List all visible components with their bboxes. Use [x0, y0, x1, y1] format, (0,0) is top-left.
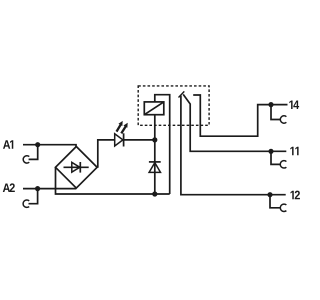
node A1 junction	[35, 142, 40, 147]
wire 12 clamp drop	[270, 195, 280, 208]
node LED-coil junction	[152, 137, 157, 142]
node A2 junction	[35, 186, 40, 191]
wire A1 to bridge top vertex	[23, 145, 76, 147]
clamp terminal 14	[280, 116, 286, 123]
relay coil K1 diagonal	[144, 102, 164, 115]
clamp terminal 12	[280, 204, 286, 211]
bridge rectifier B1 inner diode	[64, 162, 89, 173]
wire A1 clamp drop	[29, 145, 38, 160]
LED light arrow right	[121, 123, 127, 134]
wire coil bottom pin	[154, 115, 156, 140]
terminal 14 label	[289, 101, 292, 110]
relay coil K1 box	[144, 102, 164, 115]
wire A2 to bridge bottom vertex	[23, 188, 76, 190]
contact movable arm to terminal 11	[183, 94, 286, 151]
LED V1	[115, 133, 155, 146]
relay K1 dashed enclosure	[138, 86, 209, 125]
wire 11 clamp drop	[271, 151, 280, 164]
contact NC fixed line to terminal 12	[181, 96, 286, 195]
terminal 11 label	[290, 147, 293, 156]
LED light arrow left	[117, 121, 123, 132]
terminal 12 label	[291, 191, 294, 200]
clamp terminal A1	[23, 156, 29, 163]
node terminal 12 junction	[267, 192, 272, 197]
bridge rectifier B1 diamond	[56, 147, 98, 189]
terminal A2 label	[3, 184, 10, 193]
terminal A1 label	[3, 140, 10, 149]
node rail junction	[152, 191, 157, 196]
wire A2 clamp drop	[29, 189, 38, 204]
wire bridge DC minus rail	[56, 167, 170, 194]
node terminal 11 junction	[268, 149, 273, 154]
contact NC tip tick	[179, 91, 185, 97]
freewheel diode V2	[149, 140, 161, 194]
contact NO fixed hook to terminal 14	[193, 95, 287, 136]
clamp terminal 11	[280, 161, 286, 168]
wire coil top pin return to rail	[155, 95, 170, 194]
clamp terminal A2	[23, 200, 29, 207]
wire bridge DC plus riser to LED	[98, 140, 115, 168]
node terminal 14 junction	[268, 102, 273, 107]
wire 14 clamp drop	[271, 105, 280, 120]
